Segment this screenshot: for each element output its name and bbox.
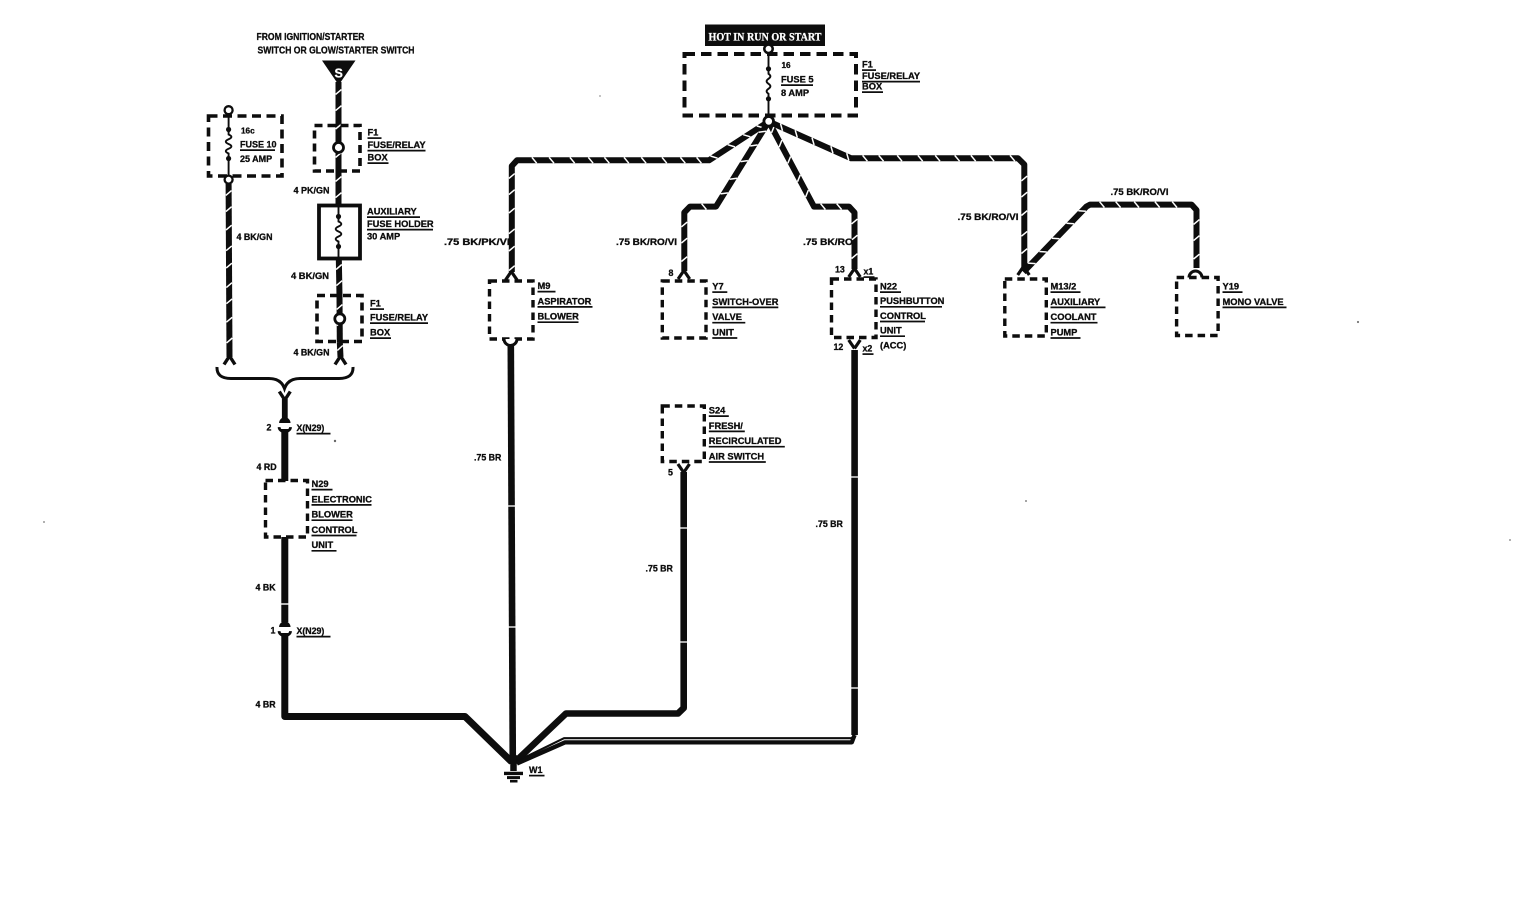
svg-text:SWITCH-OVER: SWITCH-OVER — [712, 297, 778, 307]
svg-text:BOX: BOX — [862, 82, 883, 92]
svg-text:.75 BR: .75 BR — [474, 453, 502, 463]
svg-text:MONO VALVE: MONO VALVE — [1223, 297, 1284, 307]
svg-text:.75 BK/PK/VI: .75 BK/PK/VI — [444, 237, 510, 247]
svg-text:ASPIRATOR: ASPIRATOR — [538, 296, 592, 306]
svg-text:4 RD: 4 RD — [257, 462, 277, 472]
svg-text:X(N29): X(N29) — [297, 423, 325, 433]
svg-text:4 PK/GN: 4 PK/GN — [294, 186, 330, 196]
svg-text:CONTROL: CONTROL — [312, 525, 358, 535]
wire .75 BR from N22 pin 12 (run) — [851, 350, 858, 735]
wire .75 BR from M9 to ground W1 — [511, 345, 513, 764]
svg-text:CONTROL: CONTROL — [880, 311, 926, 321]
svg-text:FUSE 10: FUSE 10 — [240, 140, 277, 150]
svg-text:25 AMP: 25 AMP — [240, 154, 272, 164]
wire 4 BK/GN from fuse 10 to splice brace — [226, 184, 233, 357]
svg-text:16: 16 — [782, 61, 792, 70]
svg-text:FUSE 5: FUSE 5 — [781, 75, 814, 85]
svg-text:BOX: BOX — [368, 153, 389, 163]
svg-text:.75 BK/RO/VI: .75 BK/RO/VI — [958, 212, 1019, 222]
svg-text:.75 BK/RO: .75 BK/RO — [803, 237, 853, 247]
svg-text:PUSHBUTTON: PUSHBUTTON — [880, 296, 945, 306]
terminal circle top of fuse 10 — [225, 106, 233, 114]
svg-text:RECIRCULATED: RECIRCULATED — [709, 436, 782, 446]
fuse F10 symbol — [228, 113, 230, 130]
svg-text:1: 1 — [271, 626, 276, 636]
svg-text:8 AMP: 8 AMP — [781, 88, 809, 98]
svg-text:4 BR: 4 BR — [256, 700, 277, 710]
wire .75 BK/RO/VI to M13/2 auxiliary coolant pump — [769, 122, 1025, 268]
wire 4 BK/GN to splice brace — [337, 342, 344, 357]
svg-text:COOLANT: COOLANT — [1051, 312, 1097, 322]
svg-text:UNIT: UNIT — [312, 540, 334, 550]
svg-text:FUSE/RELAY: FUSE/RELAY — [862, 71, 921, 81]
terminal circle under HOT box — [768, 44, 770, 56]
S24 fresh/recirculated air switch — [662, 406, 704, 462]
terminal circle bottom of fuse 10 — [225, 176, 233, 184]
Y7 switch-over valve unit — [662, 281, 706, 338]
connector 2 X(N29) — [279, 392, 285, 401]
M9 bottom terminal hump — [504, 339, 517, 346]
svg-text:4 BK/GN: 4 BK/GN — [291, 271, 329, 281]
fuse 30A symbol — [338, 207, 340, 217]
svg-text:AUXILIARY: AUXILIARY — [1051, 297, 1102, 307]
wire .75 BK/RO/VI to Y19 mono valve — [1024, 205, 1197, 272]
svg-text:FUSE/RELAY: FUSE/RELAY — [368, 140, 427, 150]
svg-text:FRESH/: FRESH/ — [709, 421, 744, 431]
svg-text:AIR SWITCH: AIR SWITCH — [709, 451, 765, 461]
wire 4 RD — [281, 429, 288, 481]
ground W1 — [510, 755, 517, 771]
svg-text:.75 BR: .75 BR — [646, 564, 674, 574]
scan noise — [1357, 321, 1359, 323]
svg-text:Y7: Y7 — [712, 282, 723, 292]
svg-text:BLOWER: BLOWER — [312, 510, 354, 520]
wire .75 BR from N22 pin 12 to ground W1 — [849, 340, 855, 349]
svg-text:F1: F1 — [370, 299, 381, 309]
svg-text:.75 BK/RO/VI: .75 BK/RO/VI — [616, 237, 677, 247]
auxiliary fuse holder box 30 AMP — [319, 206, 360, 259]
svg-text:.75 BK/RO/VI: .75 BK/RO/VI — [1111, 187, 1169, 197]
svg-text:N29: N29 — [312, 479, 329, 489]
svg-text:X(N29): X(N29) — [297, 626, 325, 636]
svg-text:5: 5 — [668, 468, 673, 478]
M9 aspirator blower — [490, 281, 534, 339]
HOT IN RUN OR START box — [705, 25, 825, 47]
svg-text:30 AMP: 30 AMP — [367, 232, 400, 242]
svg-text:x1: x1 — [864, 267, 874, 277]
svg-text:N22: N22 — [880, 282, 897, 292]
svg-text:.75 BR: .75 BR — [816, 519, 844, 529]
N29 electronic blower control unit — [266, 481, 308, 538]
svg-text:4 BK: 4 BK — [256, 583, 277, 593]
svg-text:VALVE: VALVE — [712, 312, 742, 322]
svg-text:HOT IN RUN OR START: HOT IN RUN OR START — [709, 30, 822, 44]
svg-text:4 BK/GN: 4 BK/GN — [294, 348, 330, 358]
svg-text:ELECTRONIC: ELECTRONIC — [312, 494, 373, 504]
svg-text:AUXILIARY: AUXILIARY — [367, 207, 418, 217]
wire 4 BK/GN — [336, 258, 343, 296]
svg-text:FROM IGNITION/STARTER: FROM IGNITION/STARTER — [257, 32, 365, 43]
svg-text:BLOWER: BLOWER — [538, 312, 580, 322]
Y19 mono valve — [1177, 278, 1219, 336]
svg-text:12: 12 — [834, 342, 844, 352]
wire .75 BK/RO to N22 pushbutton control unit — [769, 122, 855, 270]
wire 4 BR — [285, 633, 512, 762]
svg-text:SWITCH OR GLOW/STARTER SWITCH: SWITCH OR GLOW/STARTER SWITCH — [258, 46, 415, 57]
svg-text:UNIT: UNIT — [880, 326, 902, 336]
svg-text:x2: x2 — [863, 344, 873, 354]
svg-text:PUMP: PUMP — [1051, 327, 1078, 337]
supply arrow S (from ignition/starter switch) — [322, 61, 356, 86]
svg-text:UNIT: UNIT — [712, 327, 734, 337]
wire 4 PK/GN — [336, 171, 342, 209]
svg-text:(ACC): (ACC) — [880, 340, 906, 350]
svg-text:F1: F1 — [368, 128, 379, 138]
svg-text:M9: M9 — [538, 281, 551, 291]
fuse 10 box (16c FUSE 10 25 AMP) — [209, 116, 283, 176]
svg-text:16c: 16c — [241, 127, 255, 136]
svg-text:BOX: BOX — [370, 328, 391, 338]
F1 fuse/relay box (lower) — [317, 296, 362, 342]
wire .75 BK/PK/VI to M9 aspirator blower — [512, 122, 769, 273]
svg-text:4 BK/GN: 4 BK/GN — [237, 232, 273, 242]
svg-text:Y19: Y19 — [1223, 282, 1240, 292]
wire .75 BK/RO/VI to Y7 switch-over valve — [684, 122, 768, 272]
Y19 top terminal hump — [1189, 271, 1202, 277]
F1 fuse/relay box (main, fuse 5) — [685, 54, 857, 116]
splice brace joining both feeds — [217, 367, 353, 389]
wire 4 BK — [281, 537, 288, 622]
svg-text:W1: W1 — [529, 765, 543, 775]
fuse 5 symbol (16 FUSE 5 8 AMP) — [768, 53, 770, 69]
svg-text:13: 13 — [835, 265, 845, 275]
terminal circle in F1 box — [334, 143, 344, 153]
svg-text:8: 8 — [669, 268, 674, 278]
M13/2 auxiliary coolant pump — [1005, 279, 1047, 336]
wire .75 BR from S24 pin 5 to ground W1 — [678, 464, 684, 473]
svg-text:S24: S24 — [709, 406, 726, 416]
svg-text:FUSE/RELAY: FUSE/RELAY — [370, 313, 429, 323]
svg-text:M13/2: M13/2 — [1051, 282, 1077, 292]
svg-text:2: 2 — [267, 423, 272, 433]
F1 fuse/relay box (upper) — [315, 126, 361, 172]
wire 4 PK/GN from S to F1 fuse/relay box — [336, 82, 342, 143]
svg-text:S: S — [335, 67, 343, 81]
terminal circle in F1 box lower — [335, 314, 345, 324]
connector 1 X(N29) — [279, 621, 290, 627]
wire .75 BR from S24 pin 5 (run) — [515, 472, 684, 762]
splice node circle — [764, 117, 774, 127]
svg-text:FUSE HOLDER: FUSE HOLDER — [367, 219, 434, 229]
svg-text:F1: F1 — [862, 60, 873, 70]
N22 pushbutton control unit (ACC) — [832, 279, 877, 338]
